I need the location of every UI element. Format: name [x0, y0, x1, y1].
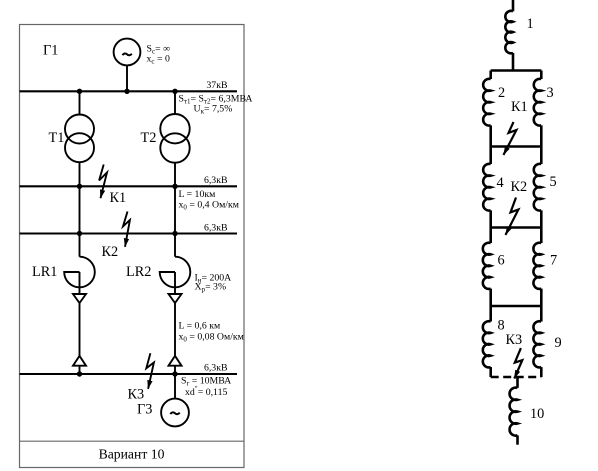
- svg-text:6,3кВ: 6,3кВ: [204, 363, 228, 374]
- reactance X8 coil: [483, 321, 491, 367]
- left rail sec4 top: [489, 306, 492, 322]
- bus 6.3kV upper: [20, 185, 238, 187]
- reactance X1 coil: [505, 11, 513, 53]
- svg-text:LR2: LR2: [126, 264, 151, 280]
- junction dot bus1 source: [124, 89, 129, 94]
- svg-text:К1: К1: [110, 190, 127, 206]
- system source tilde: [122, 54, 131, 56]
- transformer T2: [160, 114, 189, 143]
- wire bus3 to reactor LR1: [79, 234, 81, 257]
- wire bottom lead: [516, 435, 519, 444]
- left rail sec1 bottom: [489, 125, 492, 146]
- reactance X3 coil: [534, 79, 542, 126]
- fault arrow K3: [146, 353, 154, 389]
- svg-text:37кВ: 37кВ: [206, 80, 228, 91]
- svg-text:Uк= 7,5%: Uк= 7,5%: [194, 104, 233, 116]
- cable termination up left: [73, 356, 86, 366]
- wire bus1 to T2: [174, 91, 176, 114]
- wire bus3 to reactor LR2: [174, 234, 176, 257]
- cable termination down left: [73, 294, 86, 303]
- left rail sec2 top: [489, 147, 492, 165]
- svg-text:7: 7: [550, 253, 557, 269]
- svg-text:2: 2: [498, 85, 505, 101]
- wire T1 to bus2: [79, 162, 81, 186]
- reactance X7 coil: [533, 243, 541, 289]
- svg-text:4: 4: [497, 175, 504, 191]
- junction dot bus2 right: [172, 184, 177, 189]
- svg-text:Г3: Г3: [137, 402, 152, 418]
- wire bus4 to generator G3: [174, 374, 176, 399]
- fault arrow K1: [99, 165, 107, 199]
- cable termination down right: [169, 294, 182, 303]
- cable wire right: [174, 303, 176, 356]
- right rail sec4 bottom: [540, 367, 543, 377]
- svg-text:1: 1: [527, 16, 534, 32]
- rung node 4: [491, 305, 542, 308]
- wire top lead: [512, 0, 515, 11]
- svg-text:L = 10км: L = 10км: [179, 189, 216, 200]
- junction dot bus3 right: [172, 231, 177, 236]
- svg-text:5: 5: [550, 174, 557, 190]
- rung node K2: [491, 226, 542, 229]
- system source U1 circle: [114, 39, 141, 66]
- svg-text:Т1: Т1: [49, 130, 65, 146]
- bus 6.3kV middle: [20, 232, 238, 234]
- wire X1 to rung1: [512, 53, 515, 71]
- wire LR2 down: [174, 272, 176, 294]
- wire LR1 down: [79, 272, 81, 294]
- left rail sec2 bottom: [489, 210, 492, 227]
- wire to bus4 left: [79, 366, 81, 374]
- left rail sec3 top: [489, 228, 492, 244]
- rung node 1: [491, 69, 542, 72]
- wire to bus4 right: [174, 366, 176, 374]
- rung node K3 dashed: [491, 376, 542, 379]
- wire bus2 to bus3 left: [79, 186, 81, 233]
- generator G3 circle: [161, 399, 189, 427]
- svg-text:К3: К3: [506, 332, 523, 348]
- bus 6.3kV bottom: [20, 373, 238, 375]
- variant box divider: [20, 440, 245, 442]
- right rail sec4 top: [540, 306, 543, 322]
- junction dot bus3 left: [77, 231, 82, 236]
- wire source to bus 37kV: [126, 65, 128, 91]
- reactance X2 coil: [483, 79, 491, 126]
- transformer T1: [65, 115, 94, 144]
- junction dot bus4 left: [77, 371, 82, 376]
- svg-text:10: 10: [530, 406, 544, 422]
- wire T2 to bus2: [174, 163, 176, 187]
- fault arrow K3 right: [514, 348, 522, 378]
- svg-text:К2: К2: [102, 244, 119, 260]
- svg-text:x0 = 0,4 Ом/км: x0 = 0,4 Ом/км: [179, 200, 239, 212]
- reactor LR2: [160, 257, 191, 288]
- right rail sec2 top: [540, 147, 543, 165]
- bus 37kV: [20, 90, 238, 92]
- reactance X6 coil: [483, 243, 491, 289]
- svg-text:Вариант 10: Вариант 10: [99, 447, 165, 462]
- border frame: [20, 25, 245, 468]
- right rail sec3 bottom: [540, 289, 543, 306]
- rung node K1: [491, 145, 542, 148]
- svg-text:8: 8: [498, 318, 505, 334]
- junction dot bus1 T1: [77, 89, 82, 94]
- svg-text:6,3кВ: 6,3кВ: [204, 175, 228, 186]
- svg-text:6,3кВ: 6,3кВ: [204, 223, 228, 234]
- wire bus2 to bus3 right: [174, 186, 176, 233]
- fault arrow K2 right: [506, 198, 519, 235]
- svg-text:К2: К2: [511, 179, 528, 195]
- cable termination up right: [169, 356, 182, 366]
- left rail sec3 bottom: [489, 289, 492, 306]
- right rail sec3 top: [540, 228, 543, 244]
- fault arrow K2: [123, 212, 130, 247]
- junction dot bus1 T2: [172, 89, 177, 94]
- svg-text:x0 = 0,08 Ом/км: x0 = 0,08 Ом/км: [179, 332, 244, 344]
- fault arrow K1 right: [504, 122, 517, 155]
- svg-text:Xр= 3%: Xр= 3%: [195, 282, 227, 294]
- reactance X4 coil: [483, 164, 491, 211]
- svg-text:Т2: Т2: [141, 130, 157, 146]
- right rail sec2 bottom: [540, 210, 543, 227]
- svg-text:3: 3: [547, 85, 554, 101]
- svg-text:Г1: Г1: [43, 42, 58, 58]
- reactor LR1: [64, 257, 95, 288]
- svg-text:LR1: LR1: [32, 264, 57, 280]
- reactance X10 coil: [510, 388, 518, 436]
- right rail sec1 bottom: [540, 125, 543, 146]
- svg-text:L = 0,6 км: L = 0,6 км: [179, 321, 221, 332]
- reactance X5 coil: [534, 164, 542, 211]
- cable wire left: [79, 303, 81, 356]
- left rail sec1 top: [489, 71, 492, 80]
- junction dot bus4 right: [172, 371, 177, 376]
- svg-text:xd″= 0,115: xd″= 0,115: [185, 385, 227, 398]
- reactance X9 coil: [533, 321, 541, 367]
- wire bus1 to T1: [79, 91, 81, 114]
- svg-text:9: 9: [555, 335, 562, 351]
- generator G3 tilde: [170, 412, 179, 414]
- wire rung to X10: [516, 377, 519, 388]
- junction dot bus2 left: [77, 184, 82, 189]
- svg-text:К1: К1: [511, 99, 528, 115]
- svg-text:xс = 0: xс = 0: [147, 54, 170, 66]
- svg-text:6: 6: [498, 253, 505, 269]
- svg-text:Sг = 10МВА: Sг = 10МВА: [181, 376, 231, 388]
- right rail sec1 top: [540, 71, 543, 80]
- svg-text:К3: К3: [128, 387, 145, 403]
- left rail sec4 bottom: [489, 367, 492, 377]
